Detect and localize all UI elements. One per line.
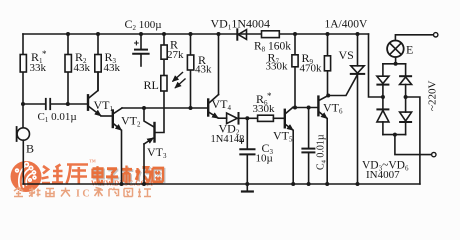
- svg-text:27k: 27k: [167, 49, 184, 61]
- resistor R 43k: [187, 55, 193, 70]
- wire VT4 collector column: [218, 34, 220, 95]
- capacitor C2: [133, 34, 148, 66]
- diode VD5: [377, 109, 389, 134]
- svg-text:43k: 43k: [74, 62, 91, 74]
- lamp E: [387, 35, 433, 57]
- transistor VT3: [144, 108, 155, 184]
- resistor R 27k: [161, 45, 167, 59]
- svg-text:C4 0.01µ: C4 0.01µ: [316, 134, 328, 170]
- svg-text:C2 100µ: C2 100µ: [125, 17, 162, 32]
- junction dots: [66, 32, 70, 36]
- wire R9 column: [327, 34, 329, 96]
- svg-text:RL: RL: [144, 78, 159, 92]
- svg-text:E: E: [406, 43, 413, 57]
- bridge top node: [383, 57, 406, 64]
- svg-text:~220V: ~220V: [427, 81, 439, 111]
- wire left column to R1: [22, 34, 24, 104]
- svg-text:10µ: 10µ: [256, 153, 273, 165]
- svg-text:C1 0.01µ: C1 0.01µ: [38, 111, 77, 124]
- transistor VT4: [208, 95, 226, 119]
- wire bridge bottom node: [383, 135, 432, 155]
- diode VD6: [400, 112, 412, 135]
- diode VD4: [400, 64, 412, 112]
- wire VT5 collector line: [293, 107, 318, 109]
- terminal bottom: [432, 152, 436, 156]
- svg-text:IN4007: IN4007: [366, 169, 400, 181]
- capacitor C1: [46, 99, 87, 109]
- wire R7 column: [294, 34, 296, 108]
- wire DC+ column to bridge: [369, 34, 383, 97]
- svg-text:R8 160k: R8 160k: [254, 41, 291, 54]
- wire DC-: [406, 97, 420, 184]
- transistor VT1: [88, 72, 112, 116]
- capacitor C4: [302, 108, 314, 185]
- svg-text:1N4148: 1N4148: [211, 134, 245, 145]
- resistor R9: [324, 56, 330, 71]
- svg-text:43k: 43k: [104, 62, 121, 74]
- ground rail: [23, 183, 420, 185]
- svg-text:330k: 330k: [253, 103, 276, 115]
- diode VD2: [227, 113, 248, 124]
- thyristor VS: [328, 34, 364, 184]
- svg-text:B: B: [26, 142, 34, 156]
- diode VD1: [237, 29, 246, 39]
- diode VD3: [377, 64, 389, 110]
- watermark: [11, 158, 165, 200]
- resistor R2: [65, 55, 71, 73]
- svg-text:470k: 470k: [300, 63, 323, 75]
- resistor R3: [95, 55, 101, 73]
- svg-text:1A/400V: 1A/400V: [325, 19, 369, 31]
- light arrows: [173, 73, 183, 82]
- transistor VT6: [318, 96, 328, 185]
- microphone B: [17, 104, 30, 184]
- resistor R7: [292, 55, 298, 67]
- svg-text:330k: 330k: [266, 61, 289, 73]
- svg-text:43k: 43k: [195, 64, 212, 76]
- transistor VT2: [113, 108, 122, 184]
- svg-text:I C: I C: [76, 189, 90, 200]
- wire R/RL column: [155, 34, 165, 133]
- wire VT2 collector line: [122, 107, 208, 109]
- resistor R6: [247, 115, 284, 121]
- transistor VT5: [285, 108, 293, 185]
- wire input line: [23, 103, 45, 105]
- resistor R8: [262, 31, 280, 38]
- wire R 43k column: [190, 34, 192, 108]
- terminal top: [434, 33, 438, 37]
- svg-text:VS: VS: [339, 48, 354, 62]
- resistor R1: [20, 55, 26, 73]
- svg-text:™: ™: [89, 158, 96, 166]
- svg-text:VD11N4004: VD11N4004: [211, 17, 271, 32]
- wire top supply rail: [23, 33, 369, 35]
- photoresistor RL: [161, 76, 167, 92]
- wire R3 column: [97, 34, 99, 91]
- svg-text:33k: 33k: [30, 62, 47, 74]
- capacitor C3: [240, 118, 255, 191]
- wire R2 column: [67, 34, 69, 104]
